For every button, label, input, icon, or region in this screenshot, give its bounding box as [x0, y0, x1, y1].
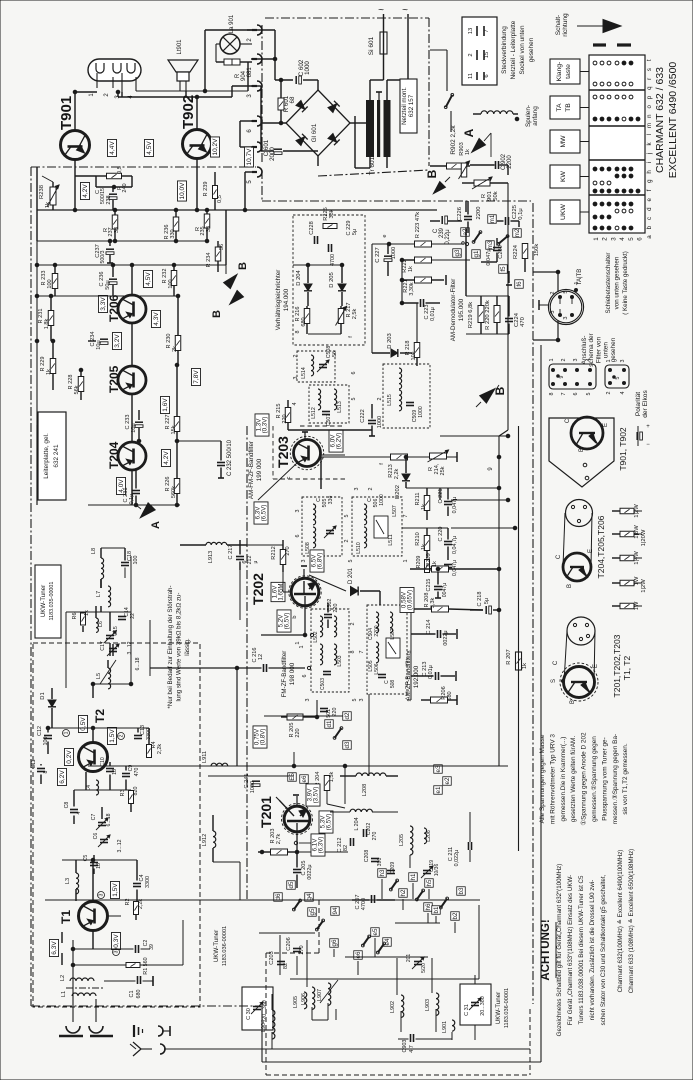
- capacitor C14: [118, 607, 136, 619]
- svg-text:500/3: 500/3: [100, 250, 106, 263]
- label T901 T902 pinout: [618, 427, 628, 471]
- resistor R219: [468, 302, 484, 329]
- svg-text:8: 8: [407, 651, 413, 654]
- svg-text:h: h: [646, 170, 653, 174]
- svg-text:f: f: [646, 189, 653, 191]
- voltage label 0,3V: [112, 932, 121, 949]
- svg-text:C226: C226: [457, 207, 463, 221]
- svg-text:3: 3: [301, 560, 307, 563]
- coil L1: [61, 991, 96, 997]
- svg-text:A: A: [462, 128, 476, 137]
- svg-text:E: E: [603, 423, 609, 427]
- coil L7: [96, 586, 111, 607]
- svg-text:L6: L6: [98, 621, 104, 627]
- circled 3b: [113, 949, 120, 956]
- svg-text:3: 3: [610, 237, 617, 241]
- svg-text:T204: T204: [107, 441, 121, 469]
- svg-text:0,5V: 0,5V: [80, 717, 87, 731]
- svg-text:1|20W: 1|20W: [641, 529, 647, 546]
- svg-text:5: 5: [563, 290, 569, 293]
- svg-text:Filter von: Filter von: [595, 336, 602, 363]
- voltage label 1,5V t1: [111, 881, 120, 898]
- switch d: [333, 727, 343, 740]
- svg-text:C15: C15: [113, 626, 119, 636]
- svg-text:5: 5: [615, 376, 621, 379]
- svg-text:L907: L907: [317, 989, 323, 1001]
- svg-text:T204,T205,T206: T204,T205,T206: [596, 515, 606, 578]
- wires am demod: [372, 244, 404, 353]
- svg-text:1000: 1000: [391, 247, 397, 259]
- svg-text:0,5: 0,5: [217, 195, 223, 203]
- voltage label 3,9V 3,5V: [306, 784, 320, 806]
- contact f6: [515, 280, 524, 289]
- wires transformer: [355, 60, 408, 168]
- svg-text:Gl 601: Gl 601: [311, 123, 318, 142]
- svg-text:Für Gerät „Charmant 633“(108MH: Für Gerät „Charmant 633“(108MHz) Einsatz…: [567, 875, 574, 1026]
- transistor T901: [61, 131, 90, 160]
- svg-text:μ: μ: [253, 560, 259, 563]
- contact d2: [343, 712, 352, 721]
- resistor R6: [72, 610, 90, 625]
- svg-text:470: 470: [520, 317, 526, 327]
- svg-text:C 232 500/10: C 232 500/10: [227, 439, 233, 476]
- label T202: [250, 573, 266, 605]
- svg-text:g1: g1: [473, 250, 480, 257]
- svg-text:3: 3: [99, 893, 105, 896]
- power module label box: [400, 79, 417, 133]
- svg-text:1: 1: [295, 641, 301, 644]
- svg-text:C206: C206: [286, 937, 292, 950]
- capacitor C220: [438, 527, 458, 555]
- capacitor C8: [64, 802, 82, 815]
- svg-text:sis von T1,T2 gemessen.: sis von T1,T2 gemessen.: [622, 743, 629, 815]
- transistor T205: [118, 366, 146, 394]
- contact e6b: [354, 951, 363, 960]
- matrix dots UKW: [593, 202, 633, 230]
- resistor R208: [411, 593, 483, 612]
- svg-text:0,1μ: 0,1μ: [518, 208, 524, 219]
- svg-text:T1, T2: T1, T2: [622, 656, 632, 681]
- wire tuner mesh: [41, 548, 149, 965]
- svg-text:7: 7: [561, 393, 567, 396]
- svg-text:L8: L8: [91, 548, 97, 554]
- capacitor C9: [122, 765, 140, 777]
- label AM-ZF-Bandfilter: [405, 653, 420, 700]
- svg-text:T206: T206: [107, 294, 121, 322]
- svg-text:12: 12: [258, 654, 264, 660]
- svg-text:C 220: C 220: [438, 527, 444, 542]
- svg-text:1: 1: [593, 237, 600, 241]
- svg-text:L206: L206: [426, 830, 432, 842]
- svg-text:C7: C7: [91, 814, 97, 821]
- svg-text:T901, T902: T901, T902: [618, 427, 628, 471]
- capacitor C13: [134, 725, 152, 740]
- node A arrow: [462, 128, 491, 157]
- svg-text:C8: C8: [64, 802, 70, 809]
- svg-text:1k: 1k: [46, 369, 52, 375]
- svg-text:10/36: 10/36: [434, 864, 440, 877]
- text ACHTUNG heading: [540, 919, 556, 980]
- resistor R1: [71, 920, 183, 975]
- svg-text:gesehen: gesehen: [610, 337, 617, 362]
- svg-text:390: 390: [377, 858, 383, 867]
- svg-text:p: p: [646, 95, 653, 99]
- contact b1: [432, 906, 441, 915]
- svg-text:h5: h5: [426, 879, 433, 886]
- svg-text:20...380: 20...380: [262, 1000, 268, 1019]
- capacitor C213: [411, 662, 456, 681]
- svg-text:C: C: [565, 418, 571, 423]
- svg-text:C11: C11: [31, 759, 37, 768]
- svg-text:1W: 1W: [634, 576, 640, 585]
- coil L204: [330, 809, 398, 830]
- svg-text:( Keine Taste gedruckt): ( Keine Taste gedruckt): [622, 251, 629, 315]
- svg-text:C208: C208: [364, 850, 370, 863]
- capacitor C225: [497, 205, 524, 227]
- label Schiebetastenschalter: [605, 251, 629, 315]
- svg-text:L511: L511: [388, 534, 394, 545]
- svg-text:richtung: richtung: [562, 13, 569, 37]
- connector pin 2: [247, 25, 262, 42]
- svg-text:1k: 1k: [45, 202, 51, 208]
- svg-text:T203: T203: [275, 436, 291, 468]
- svg-text:(6,5V): (6,5V): [260, 505, 267, 522]
- svg-text:0,047μ: 0,047μ: [486, 248, 492, 265]
- capacitor C4: [133, 875, 151, 888]
- svg-text:Alle Spannungen gegen Masse: Alle Spannungen gegen Masse: [539, 734, 546, 823]
- svg-text:L506: L506: [374, 663, 380, 674]
- svg-text:g3: g3: [454, 249, 461, 256]
- voltage label 5,2V 5,5V: [277, 610, 291, 632]
- svg-text:7: 7: [359, 651, 365, 654]
- svg-text:100: 100: [168, 279, 174, 288]
- capacitor C215: [426, 569, 448, 598]
- pin labels lower filters: [295, 488, 409, 563]
- svg-text:m1: m1: [489, 214, 496, 223]
- contact e1: [434, 786, 443, 795]
- svg-text:1|8W: 1|8W: [634, 525, 640, 539]
- svg-text:1k: 1k: [408, 266, 414, 272]
- svg-text:T205: T205: [107, 365, 121, 393]
- capacitor C236: [99, 263, 117, 296]
- label T902: [180, 95, 197, 129]
- resistor R221: [402, 275, 446, 296]
- svg-text:6,2V: 6,2V: [59, 770, 66, 784]
- diode D202: [395, 457, 410, 499]
- svg-text:n: n: [646, 114, 653, 118]
- capacitor C212: [337, 812, 354, 858]
- svg-text:(6,2V): (6,2V): [335, 433, 342, 450]
- svg-text:20...380: 20...380: [480, 996, 486, 1015]
- trimmer C219: [421, 860, 440, 878]
- node B arrow right: [476, 385, 507, 407]
- svg-text:4,2V: 4,2V: [163, 451, 170, 465]
- svg-text:UKW: UKW: [560, 203, 567, 219]
- coil L907: [317, 980, 338, 1005]
- voltage label 6,3V: [50, 939, 59, 956]
- svg-text:mit Röhrenvoltmeter Typ URV 3: mit Röhrenvoltmeter Typ URV 3: [549, 734, 556, 824]
- label T204: [107, 441, 121, 469]
- capacitor C223: [402, 296, 440, 321]
- svg-text:5μ: 5μ: [484, 598, 490, 604]
- svg-text:L515: L515: [387, 394, 393, 406]
- capacitor C208: [364, 850, 383, 867]
- contact h6: [424, 903, 433, 912]
- label Anschlussschema: [581, 332, 617, 366]
- antenna symbol: [130, 1042, 530, 1056]
- label UKW-Tuner 2: [213, 926, 228, 966]
- svg-text:8: 8: [549, 393, 555, 396]
- resistor R205: [281, 700, 319, 738]
- svg-text:5: 5: [352, 699, 358, 702]
- svg-text:R6: R6: [72, 613, 78, 620]
- connector pin 4: [247, 142, 262, 159]
- svg-text:632 241: 632 241: [53, 444, 60, 468]
- svg-text:6: 6: [351, 372, 357, 375]
- pcb border dash-dot top: [31, 25, 262, 201]
- svg-text:8: 8: [350, 651, 356, 654]
- coil L913: [180, 542, 247, 563]
- resistor R213: [388, 454, 408, 479]
- voltage label 6,3V 6,5V: [254, 502, 268, 524]
- svg-text:C10: C10: [100, 757, 106, 767]
- svg-text:C12: C12: [37, 726, 43, 736]
- svg-text:3,3k: 3,3k: [430, 598, 436, 609]
- label Polaritaet: [635, 390, 649, 418]
- capacitor C11: [31, 759, 49, 773]
- wires power: [247, 30, 366, 166]
- resistor R225: [323, 207, 337, 228]
- svg-text:4: 4: [619, 237, 626, 241]
- switch key UKW: [550, 200, 589, 224]
- label T203: [275, 436, 291, 468]
- svg-text:10,0V: 10,0V: [179, 182, 186, 200]
- ferrite rod antenna: [59, 999, 113, 1036]
- label AM-FM-ZF-Bandfilter: [248, 441, 263, 499]
- svg-text:680: 680: [301, 317, 307, 326]
- tube V901: [88, 59, 141, 99]
- svg-text:C1: C1: [129, 991, 135, 998]
- voltage label 4,5V: [145, 139, 154, 156]
- coil L8: [91, 548, 104, 588]
- wire mains switch: [354, 116, 356, 168]
- svg-text:R 207: R 207: [506, 649, 512, 664]
- contact h2: [399, 889, 408, 898]
- svg-text:1,8k: 1,8k: [44, 319, 50, 330]
- svg-text:R 220 220k: R 220 220k: [485, 300, 491, 330]
- svg-text:18: 18: [96, 863, 102, 869]
- resistor R239: [203, 172, 223, 210]
- trimmer C201: [406, 954, 427, 973]
- resistor R209: [416, 556, 435, 573]
- svg-text:A: A: [150, 521, 162, 529]
- resistor R4: [147, 742, 164, 758]
- svg-text:b3: b3: [458, 887, 465, 894]
- svg-text:R219 6,8k: R219 6,8k: [468, 302, 474, 329]
- svg-text:2: 2: [561, 359, 567, 362]
- connector pin 3: [247, 81, 262, 98]
- svg-text:100: 100: [47, 279, 53, 288]
- resistor R220: [485, 300, 500, 330]
- svg-text:R238: R238: [39, 185, 45, 199]
- svg-text:5: 5: [348, 560, 354, 563]
- capacitor C219: [444, 560, 458, 576]
- svg-text:B: B: [579, 448, 585, 452]
- svg-text:*Nur bei Bedarf zur Einhaltung: *Nur bei Bedarf zur Einhaltung der Störs…: [167, 585, 174, 708]
- svg-text:C6: C6: [93, 833, 99, 840]
- matrix dots Klangtaste: [593, 61, 633, 86]
- capacitor C501: [320, 708, 338, 724]
- svg-text:(6,3V): (6,3V): [317, 837, 324, 854]
- svg-text:R902 2,2k: R902 2,2k: [450, 125, 457, 155]
- svg-text:198 000: 198 000: [289, 662, 296, 685]
- voltage label 4,2V c: [162, 449, 171, 466]
- svg-text:Charmant 633 (108MHz) ≙ Excel: Charmant 633 (108MHz) ≙ Excellent 6500(1…: [628, 849, 635, 993]
- svg-text:10,7V: 10,7V: [246, 148, 253, 166]
- capacitor C227: [375, 244, 397, 276]
- svg-text:von unten gesehen: von unten gesehen: [614, 256, 621, 309]
- matrix dots TA TB: [593, 95, 640, 121]
- switch g-contacts: [462, 231, 509, 246]
- contact m3: [486, 240, 495, 249]
- svg-text:0,01μ: 0,01μ: [428, 665, 434, 679]
- label T901: [58, 96, 75, 130]
- svg-text:1183.035-00001: 1183.035-00001: [49, 582, 55, 621]
- svg-text:T201: T201: [258, 796, 274, 828]
- resistor R904: [216, 59, 253, 81]
- svg-text:C 227: C 227: [375, 247, 381, 262]
- svg-text:1000: 1000: [418, 406, 424, 418]
- svg-text:(6,5V): (6,5V): [325, 814, 332, 831]
- svg-text:1000: 1000: [379, 494, 385, 506]
- contact e3: [434, 765, 443, 774]
- trimmer C6: [93, 833, 123, 853]
- capacitor C232: [137, 439, 233, 478]
- svg-text:C209: C209: [390, 862, 396, 875]
- svg-text:6,3V: 6,3V: [51, 941, 58, 955]
- svg-text:3: 3: [354, 488, 360, 491]
- capacitor C237: [95, 241, 114, 263]
- svg-text:2k: 2k: [172, 346, 178, 352]
- resistor R236: [164, 210, 179, 241]
- resistor R216: [295, 306, 310, 334]
- voltage label 4,3V: [152, 310, 161, 327]
- capacitor C228: [309, 221, 318, 244]
- svg-text:L1: L1: [61, 991, 67, 997]
- svg-text:L911: L911: [202, 751, 208, 763]
- capacitor C902: [470, 153, 513, 175]
- svg-text:0022μ: 0022μ: [443, 630, 449, 645]
- svg-text:0,3V: 0,3V: [113, 934, 120, 948]
- svg-text:T901: T901: [58, 96, 75, 130]
- svg-text:Plusspannung vom Tuner ge-: Plusspannung vom Tuner ge-: [601, 737, 608, 820]
- svg-text:1: 1: [299, 646, 305, 649]
- svg-text:4,3V: 4,3V: [153, 312, 160, 326]
- svg-text:4700: 4700: [330, 254, 336, 266]
- svg-text:h2: h2: [400, 889, 407, 896]
- svg-text:gesehen: gesehen: [528, 37, 535, 62]
- svg-text:(0,8V): (0,8V): [259, 729, 266, 746]
- capacitor C234: [90, 332, 108, 350]
- svg-text:d3: d3: [344, 741, 351, 748]
- coil L206: [424, 828, 432, 844]
- svg-text:8: 8: [43, 770, 49, 773]
- svg-text:CHARMANT 632 / 633: CHARMANT 632 / 633: [654, 67, 666, 173]
- svg-text:h1: h1: [410, 873, 417, 880]
- capacitor C221: [438, 489, 458, 514]
- label T201-203 pinout: [612, 634, 632, 697]
- svg-text:9: 9: [559, 375, 565, 378]
- tick marks: [593, 43, 631, 46]
- voltage label 10,7V: [245, 147, 254, 167]
- svg-text:L507: L507: [392, 505, 398, 517]
- svg-text:i: i: [646, 162, 653, 163]
- capacitor C203: [269, 951, 289, 969]
- svg-text:R1 560: R1 560: [143, 957, 149, 974]
- svg-text:D 201: D 201: [348, 567, 354, 584]
- svg-text:194.000: 194.000: [283, 288, 290, 311]
- svg-text:L502: L502: [313, 631, 319, 642]
- svg-text:0,22μ: 0,22μ: [445, 229, 451, 245]
- svg-text:g: g: [646, 179, 653, 183]
- svg-text:2,2k: 2,2k: [394, 469, 400, 480]
- svg-text:C903: C903: [402, 1040, 408, 1053]
- svg-text:s: s: [646, 68, 653, 71]
- svg-text:EXCELLENT 6490 /6500: EXCELLENT 6490 /6500: [667, 62, 679, 179]
- bus horizontal mid: [37, 425, 508, 766]
- svg-text:Lt901: Lt901: [177, 39, 183, 55]
- svg-text:L905: L905: [293, 996, 299, 1008]
- capacitor C602: [296, 59, 311, 84]
- svg-text:2200: 2200: [476, 207, 482, 220]
- svg-text:R210: R210: [415, 532, 421, 545]
- contact a2: [461, 228, 470, 237]
- resistor R207: [506, 649, 528, 670]
- svg-text:6: 6: [484, 74, 490, 77]
- svg-text:33k: 33k: [329, 209, 335, 218]
- svg-text:La 901: La 901: [229, 14, 235, 33]
- wire zf rows: [247, 609, 411, 776]
- capacitor C10: [100, 757, 118, 775]
- svg-text:C215: C215: [426, 579, 432, 592]
- tuner label box: [35, 565, 61, 638]
- svg-text:ACHTUNG!: ACHTUNG!: [540, 919, 552, 980]
- wire left rail: [37, 210, 226, 505]
- trimmer C17: [100, 641, 133, 656]
- voltage label 6,5V 6,8V: [310, 550, 324, 572]
- capacitor C12: [37, 726, 52, 745]
- pinout T901/T902 housing: [549, 417, 614, 487]
- capacitor C224: [505, 312, 526, 327]
- svg-text:68: 68: [289, 96, 296, 103]
- contact h1: [409, 873, 418, 882]
- voltage label 6,0V 6,2V: [329, 430, 343, 452]
- svg-text:d6: d6: [275, 893, 282, 900]
- svg-text:Polarität: Polarität: [635, 392, 642, 416]
- svg-text:Klang-: Klang-: [556, 62, 563, 82]
- svg-text:0,047μ: 0,047μ: [452, 560, 458, 576]
- svg-text:100: 100: [133, 556, 139, 565]
- svg-text:3,3V: 3,3V: [100, 297, 107, 311]
- arrow Schaltrichtung: [577, 20, 621, 33]
- pin labels zf: [299, 623, 413, 702]
- capacitor C241: [244, 766, 260, 796]
- svg-text:4,2V: 4,2V: [82, 184, 89, 198]
- wires ratio det: [293, 263, 354, 338]
- svg-text:1,5V: 1,5V: [109, 729, 116, 743]
- bandfilter L505 L506 L507: [367, 605, 407, 694]
- svg-text:0,1μ: 0,1μ: [129, 494, 135, 505]
